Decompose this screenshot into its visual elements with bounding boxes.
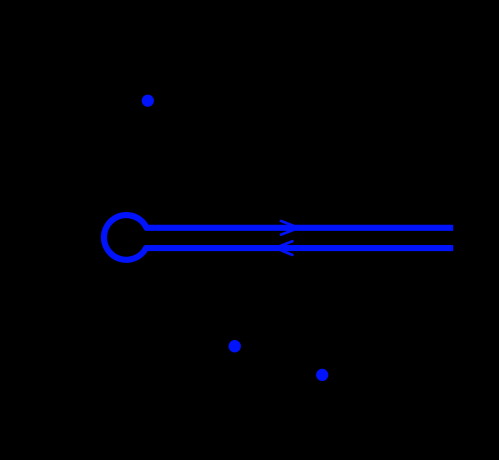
pole dot lower right [316,369,328,381]
pole dot lower middle [229,340,241,352]
arrowhead on upper line (points right): two swept-back barbs [281,221,294,235]
keyhole contour: upper branch-cut line, small circle around branch point, lower branch-cut line [104,215,453,260]
arrowhead on lower line (points left): two swept-back barbs [281,241,292,255]
pole dot upper left [142,95,154,107]
